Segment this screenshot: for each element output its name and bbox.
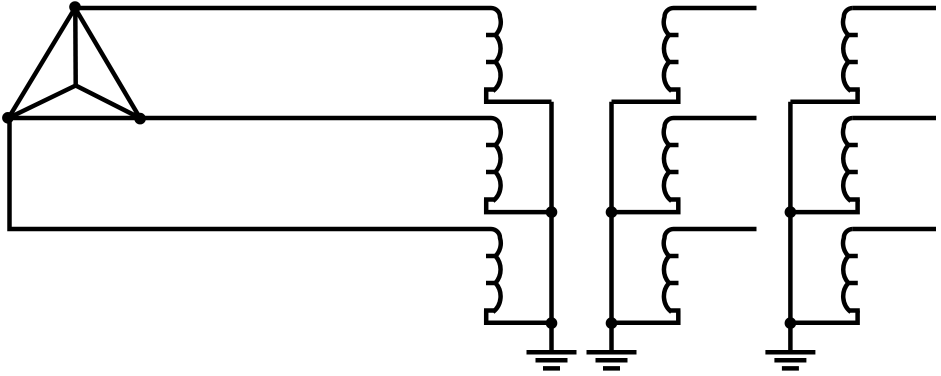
wire winding L5 bottom lead to neutral bus 2 [612, 200, 679, 213]
winding L2 cusp tick 2 [486, 170, 496, 175]
winding L2 coil [491, 118, 501, 201]
winding L1 bottom tick [484, 87, 495, 92]
winding L3 bottom tick [484, 308, 495, 313]
ground G1 bar 3 [543, 366, 560, 371]
wire winding L9 bottom lead to neutral bus 3 [790, 311, 857, 323]
winding L9 cusp tick 1 [848, 254, 858, 259]
delta source edge top-right [75, 8, 140, 118]
ground G3 bar 1 [765, 350, 815, 355]
winding L4 cusp tick 2 [669, 60, 679, 65]
winding L3 cusp tick 1 [486, 254, 496, 259]
junction bus 2 / L5 return [606, 206, 618, 218]
winding L5 cusp tick 1 [669, 143, 679, 148]
junction bus 1 / L2 return [546, 206, 558, 218]
winding L3 coil [491, 229, 501, 312]
winding L2 cusp tick 1 [486, 143, 496, 148]
ground G3 bar 2 [774, 358, 806, 363]
wire winding L7 top lead [853, 6, 936, 11]
winding L4 cusp tick 1 [669, 33, 679, 38]
winding L1 cusp tick 2 [486, 60, 496, 65]
winding L6 coil [664, 229, 674, 312]
node phase C (delta bottom-right vertex) [134, 113, 146, 125]
ground G1 bar 1 [527, 350, 577, 355]
wire phase A to winding L1 [75, 6, 491, 11]
winding L1 coil [491, 8, 501, 91]
junction bus 1 / L3 return [546, 317, 558, 329]
wire phase B down-and-right to winding L3 [10, 118, 492, 229]
winding L5 cusp tick 2 [669, 170, 679, 175]
winding L8 cusp tick 1 [848, 143, 858, 148]
winding L5 bottom tick [670, 197, 681, 202]
wire winding L6 bottom lead to neutral bus 2 [612, 311, 679, 323]
wire winding L1 bottom lead to neutral bus 1 [486, 90, 551, 102]
winding L3 cusp tick 2 [486, 281, 496, 286]
winding L9 bottom tick [849, 308, 860, 313]
winding L8 coil [843, 118, 853, 201]
wire phase C (delta bottom edge) to winding L2 [9, 116, 492, 121]
wire winding L8 top lead [853, 116, 936, 121]
ground G2 bar 1 [587, 350, 637, 355]
winding L7 cusp tick 1 [848, 33, 858, 38]
ground G2 bar 3 [603, 366, 620, 371]
wire winding L2 bottom lead to neutral bus 1 [486, 200, 551, 213]
winding L8 bottom tick [849, 197, 860, 202]
wire neutral bus 1 [549, 102, 554, 352]
ground G1 bar 2 [536, 358, 568, 363]
winding L4 coil [664, 8, 674, 91]
node phase B (delta bottom-left vertex) [2, 112, 14, 124]
wire winding L5 top lead [674, 116, 757, 121]
wire winding L3 bottom lead to neutral bus 1 [486, 311, 551, 323]
winding L2 bottom tick [484, 197, 495, 202]
node phase A (delta top vertex) [69, 1, 81, 13]
winding L1 cusp tick 1 [486, 33, 496, 38]
delta source spoke from bottom-left vertex [9, 86, 76, 119]
delta source spoke from bottom-right vertex [76, 86, 140, 119]
junction bus 3 / L8 return [785, 206, 797, 218]
ground G2 bar 2 [596, 358, 628, 363]
wire neutral bus 2 [609, 102, 614, 352]
wire winding L6 top lead [674, 227, 757, 232]
wire winding L4 bottom lead to neutral bus 2 [612, 90, 679, 102]
wire winding L7 bottom lead to neutral bus 3 [790, 90, 857, 102]
wire winding L9 top lead [853, 227, 936, 232]
delta source spoke from top vertex [73, 8, 78, 86]
wire winding L8 bottom lead to neutral bus 3 [790, 200, 857, 213]
winding L6 bottom tick [670, 308, 681, 313]
winding L9 coil [843, 229, 853, 312]
wire neutral bus 3 [788, 102, 793, 352]
delta source edge top-left [9, 8, 76, 118]
wire winding L4 top lead [674, 6, 757, 11]
winding L7 cusp tick 2 [848, 60, 858, 65]
winding L4 bottom tick [670, 87, 681, 92]
winding L7 coil [843, 8, 853, 91]
winding L7 bottom tick [849, 87, 860, 92]
winding L6 cusp tick 2 [669, 281, 679, 286]
winding L6 cusp tick 1 [669, 254, 679, 259]
winding L8 cusp tick 2 [848, 170, 858, 175]
winding L5 coil [664, 118, 674, 201]
junction bus 2 / L6 return [606, 317, 618, 329]
ground G3 bar 3 [782, 366, 799, 371]
junction bus 3 / L9 return [785, 317, 797, 329]
winding L9 cusp tick 2 [848, 281, 858, 286]
